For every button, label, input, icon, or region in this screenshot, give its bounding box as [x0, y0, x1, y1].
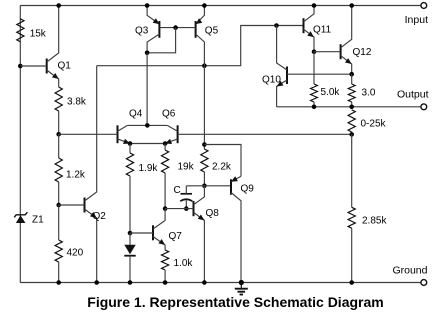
node bottom rail Q8 emitter junction	[202, 280, 207, 285]
node Output terminal	[397, 89, 429, 110]
transistor Q12	[314, 6, 372, 75]
wire left rail	[19, 6, 21, 283]
node top rail Q5 junction	[202, 3, 207, 8]
transistor Q10	[262, 26, 352, 107]
resistor 19k	[162, 144, 195, 209]
svg-text:Q8: Q8	[206, 208, 220, 219]
node bottom rail 1.0k junction	[163, 280, 168, 285]
svg-text:19k: 19k	[178, 162, 195, 173]
resistor 1.2k	[55, 134, 86, 205]
wire Q9 base link	[186, 185, 231, 187]
svg-text:15k: 15k	[30, 28, 47, 39]
svg-text:Input: Input	[405, 14, 428, 26]
svg-text:3.0: 3.0	[362, 88, 376, 99]
svg-text:Q7: Q7	[169, 231, 183, 242]
svg-text:2.85k: 2.85k	[362, 216, 387, 227]
node Q2 base junction	[56, 203, 61, 208]
node bottom rail diode junction	[128, 280, 133, 285]
wire pair common top	[127, 124, 167, 126]
svg-text:Ground: Ground	[392, 265, 427, 277]
node pair common junction	[145, 123, 150, 128]
node Q9 base junction	[202, 184, 207, 189]
svg-text:Q2: Q2	[93, 211, 107, 222]
resistor 3.8k	[55, 87, 87, 134]
svg-text:Q9: Q9	[241, 184, 255, 195]
svg-text:Q4: Q4	[129, 109, 143, 120]
svg-text:0-25k: 0-25k	[361, 119, 387, 130]
transistor Q9	[231, 176, 254, 282]
transistor Q3	[135, 6, 159, 53]
svg-text:Figure 1. Representative Schem: Figure 1. Representative Schematic Diagr…	[87, 294, 383, 310]
node reference divider junction	[56, 132, 61, 137]
svg-text:1.2k: 1.2k	[66, 170, 86, 181]
wire pair emitter link	[130, 143, 165, 145]
svg-text:3.8k: 3.8k	[67, 97, 87, 108]
node top rail Q12 junction	[349, 3, 354, 8]
node Q6 emitter junction	[163, 141, 168, 146]
node Q7 base junction	[128, 231, 133, 236]
node bottom rail 420 junction	[56, 280, 61, 285]
svg-text:Q3: Q3	[135, 26, 149, 37]
svg-text:C: C	[174, 185, 181, 196]
wire Q3-Q5 base link	[159, 27, 195, 29]
resistor 5.0k	[311, 52, 341, 107]
diode D1	[124, 233, 135, 283]
node output rail 5.0k junction	[312, 105, 317, 110]
wire output rail	[277, 106, 421, 108]
resistor 1.0k	[162, 250, 194, 283]
node Q5 collector junction	[202, 63, 207, 68]
node mirror base junction	[173, 25, 178, 30]
wire top supply rail	[20, 5, 421, 7]
node Ground terminal	[392, 265, 427, 286]
node Q3 collector junction	[145, 51, 150, 56]
node feedback divider junction	[349, 132, 354, 137]
node 2.2k top junction	[202, 142, 207, 147]
node Q11 base junction	[274, 23, 279, 28]
node left-rail base junction	[18, 64, 23, 69]
capacitor C	[174, 185, 193, 209]
node top rail Q1 junction	[56, 3, 61, 8]
node Q12 base junction	[312, 49, 317, 54]
svg-text:Q11: Q11	[313, 25, 332, 36]
node capacitor bottom junction	[184, 206, 189, 211]
node top rail Q11 junction	[312, 3, 317, 8]
node bottom rail Q2 emitter junction	[94, 280, 99, 285]
transistor Q5	[196, 6, 219, 66]
resistor 420	[55, 205, 84, 283]
svg-text:5.0k: 5.0k	[321, 87, 341, 98]
svg-text:Q10: Q10	[262, 75, 281, 86]
svg-text:Output: Output	[397, 89, 429, 101]
wire Q6 base feedback	[178, 133, 352, 135]
svg-text:1.9k: 1.9k	[139, 163, 159, 174]
svg-text:Q6: Q6	[162, 109, 176, 120]
resistor 1.9k	[126, 144, 158, 234]
svg-text:Q1: Q1	[58, 61, 72, 72]
node Q12 emitter junction	[349, 72, 354, 77]
svg-text:Q5: Q5	[205, 26, 219, 37]
svg-text:420: 420	[67, 248, 84, 259]
wire Q3 collector to pair	[146, 53, 148, 126]
svg-text:2.2k: 2.2k	[212, 162, 232, 173]
wire Q4 base from divider	[59, 133, 118, 135]
wire Q9 emitter feed	[204, 145, 241, 177]
wire bottom ground rail	[20, 282, 421, 284]
svg-text:Q12: Q12	[353, 47, 372, 58]
transistor Q6	[162, 109, 178, 145]
node Q8 base junction	[163, 206, 168, 211]
node Input terminal	[405, 3, 428, 26]
zener Z1	[14, 212, 44, 225]
transistor Q1	[20, 6, 71, 88]
resistor 2.2k	[201, 66, 232, 186]
wire Q2-collector to Q11-base	[97, 26, 304, 66]
svg-text:1.0k: 1.0k	[174, 258, 194, 269]
transistor Q8	[165, 186, 219, 283]
transistor Q4	[118, 109, 143, 145]
caption	[87, 294, 383, 310]
resistor 0-25k	[348, 110, 386, 135]
node output rail 3.0 junction	[349, 105, 354, 110]
wire Q3 diode connection	[147, 28, 176, 53]
resistor 15k	[17, 19, 47, 42]
node top rail Q3 junction	[145, 3, 150, 8]
svg-text:Z1: Z1	[32, 215, 44, 226]
node bottom rail 2.85k junction	[349, 280, 354, 285]
resistor 2.85k	[348, 134, 387, 282]
resistor 3.0	[348, 74, 376, 107]
transistor Q2	[59, 66, 107, 283]
transistor Q11	[304, 6, 332, 52]
ground	[235, 283, 248, 295]
node Q4 emitter junction	[128, 141, 133, 146]
node ground rail junction	[239, 280, 244, 285]
transistor Q7	[130, 209, 182, 250]
